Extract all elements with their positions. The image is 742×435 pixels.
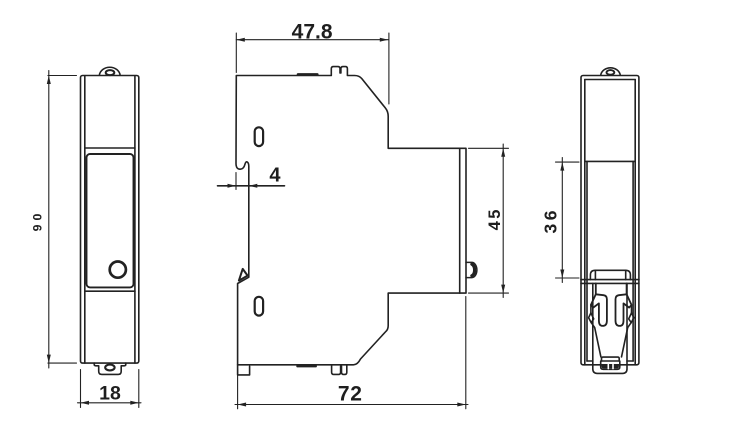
front panel indicator circle	[110, 262, 126, 278]
rear view mid horizontal line	[585, 160, 635, 162]
rear view right inner line	[634, 80, 636, 365]
rear clip grip dark band	[602, 365, 619, 369]
rear clip tab inner right step	[625, 270, 627, 279]
dim 36 extension line top	[556, 161, 580, 163]
dim 47.8 arrow left	[236, 38, 245, 42]
rear housing bottom right ledge	[627, 360, 633, 362]
rear clip right prong barb	[629, 313, 634, 323]
rear view top mounting ear	[601, 68, 621, 75]
rear clip grip top band	[602, 357, 620, 361]
rear clip left prong rail	[595, 283, 597, 294]
side view bottom double tab	[332, 365, 347, 375]
front panel top edge	[85, 147, 135, 149]
dim 47.8 arrow right	[380, 38, 389, 42]
side view bottom hook flag	[239, 269, 248, 281]
dim 90 extension line bottom	[48, 362, 77, 364]
rear clip slider outline	[593, 283, 627, 373]
dim 45 extension line bottom	[469, 292, 509, 294]
front view body outline	[81, 76, 139, 364]
svg-text:47.8: 47.8	[292, 20, 333, 43]
rear view inner top edge	[585, 79, 635, 81]
rear clip tab inner left step	[594, 270, 596, 279]
rear view left inner line	[584, 80, 586, 365]
front view left flange line	[84, 76, 86, 363]
rear clip right prong side edge	[631, 305, 633, 313]
rear view ear slot	[607, 70, 615, 75]
dim 47.8 extension line left	[235, 33, 237, 73]
dim 4 arrow right (points left)	[249, 184, 257, 188]
side view lower slot	[255, 297, 263, 316]
dim 18 arrow left	[81, 401, 90, 405]
rear clip grip body	[601, 361, 620, 369]
dim 90 extension line top	[48, 75, 77, 77]
side view upper slot	[255, 127, 263, 146]
rear clip left prong side edge	[590, 305, 592, 313]
dim 45 extension line top	[469, 147, 509, 149]
dim 18 extension line right	[138, 370, 140, 408]
rear clip housing left wall	[586, 161, 588, 361]
dim 36 arrow bottom	[560, 270, 564, 279]
dim 45 arrow top	[501, 148, 505, 157]
dim 36 dimension line	[561, 158, 563, 283]
dim 72 dimension line	[235, 404, 468, 406]
front view bottom tab	[94, 363, 126, 374]
side view bottom left foot	[238, 365, 250, 375]
rear view body outline	[581, 76, 639, 365]
rear clip right prong tail	[622, 323, 632, 357]
rear clip lower horizontal	[581, 282, 639, 284]
svg-text:72: 72	[338, 383, 363, 406]
rear clip left prong tail	[591, 323, 601, 357]
svg-text:45: 45	[486, 207, 504, 230]
rear clip housing right wall	[632, 161, 634, 361]
dim 18 extension line left	[80, 370, 82, 408]
svg-text:4: 4	[269, 165, 281, 187]
dim 90 arrow top	[47, 76, 51, 85]
dim 4 extension tick	[235, 173, 237, 190]
rear clip left prong hook	[591, 294, 607, 326]
rear clip grip slit left	[607, 364, 609, 368]
front panel inner rounded rect	[87, 154, 134, 287]
dim 72 arrow right	[457, 403, 466, 407]
dim 47.8 extension line right	[388, 33, 390, 104]
rear housing bottom left ledge	[587, 360, 593, 362]
dim 45 dimension line	[502, 144, 504, 298]
dim 72 extension line left	[237, 370, 239, 409]
svg-text:18: 18	[99, 382, 121, 404]
dim 18 arrow right	[130, 401, 139, 405]
rear clip grip slit right	[612, 364, 614, 368]
dim 18 dimension line	[78, 402, 142, 404]
dim 72 extension line right	[465, 297, 467, 409]
rear clip right prong rail	[626, 283, 628, 294]
svg-text:90: 90	[31, 210, 45, 232]
dim 72 arrow left	[238, 403, 247, 407]
dim 36 extension line bottom	[556, 277, 580, 279]
side view terminal face inner line	[459, 148, 461, 293]
svg-text:36: 36	[541, 207, 561, 233]
rear clip tab outline	[590, 270, 630, 279]
dim 90 dimension line	[48, 71, 50, 369]
dim 4 dimension line	[218, 185, 285, 187]
side view top seam dash	[298, 73, 317, 76]
front view top ear slot	[106, 70, 115, 75]
rear clip right prong hook	[616, 294, 632, 326]
dim 47.8 dimension line	[236, 39, 388, 41]
side view bottom seam dash	[298, 365, 316, 368]
front view bottom tab slot	[105, 365, 114, 371]
front panel bottom edge	[85, 290, 135, 292]
side view terminal bump	[466, 262, 477, 277]
rear clip left prong barb	[589, 313, 594, 323]
front view right flange line	[134, 76, 136, 363]
dim 45 arrow bottom	[501, 285, 505, 294]
dim 90 arrow bottom	[47, 355, 51, 364]
front view top mounting ear	[99, 67, 120, 75]
dim 4 arrow left (points right)	[228, 184, 237, 188]
rear clip upper horizontal	[581, 279, 639, 281]
side view main outline	[236, 67, 466, 365]
dim 36 arrow top	[560, 162, 564, 171]
